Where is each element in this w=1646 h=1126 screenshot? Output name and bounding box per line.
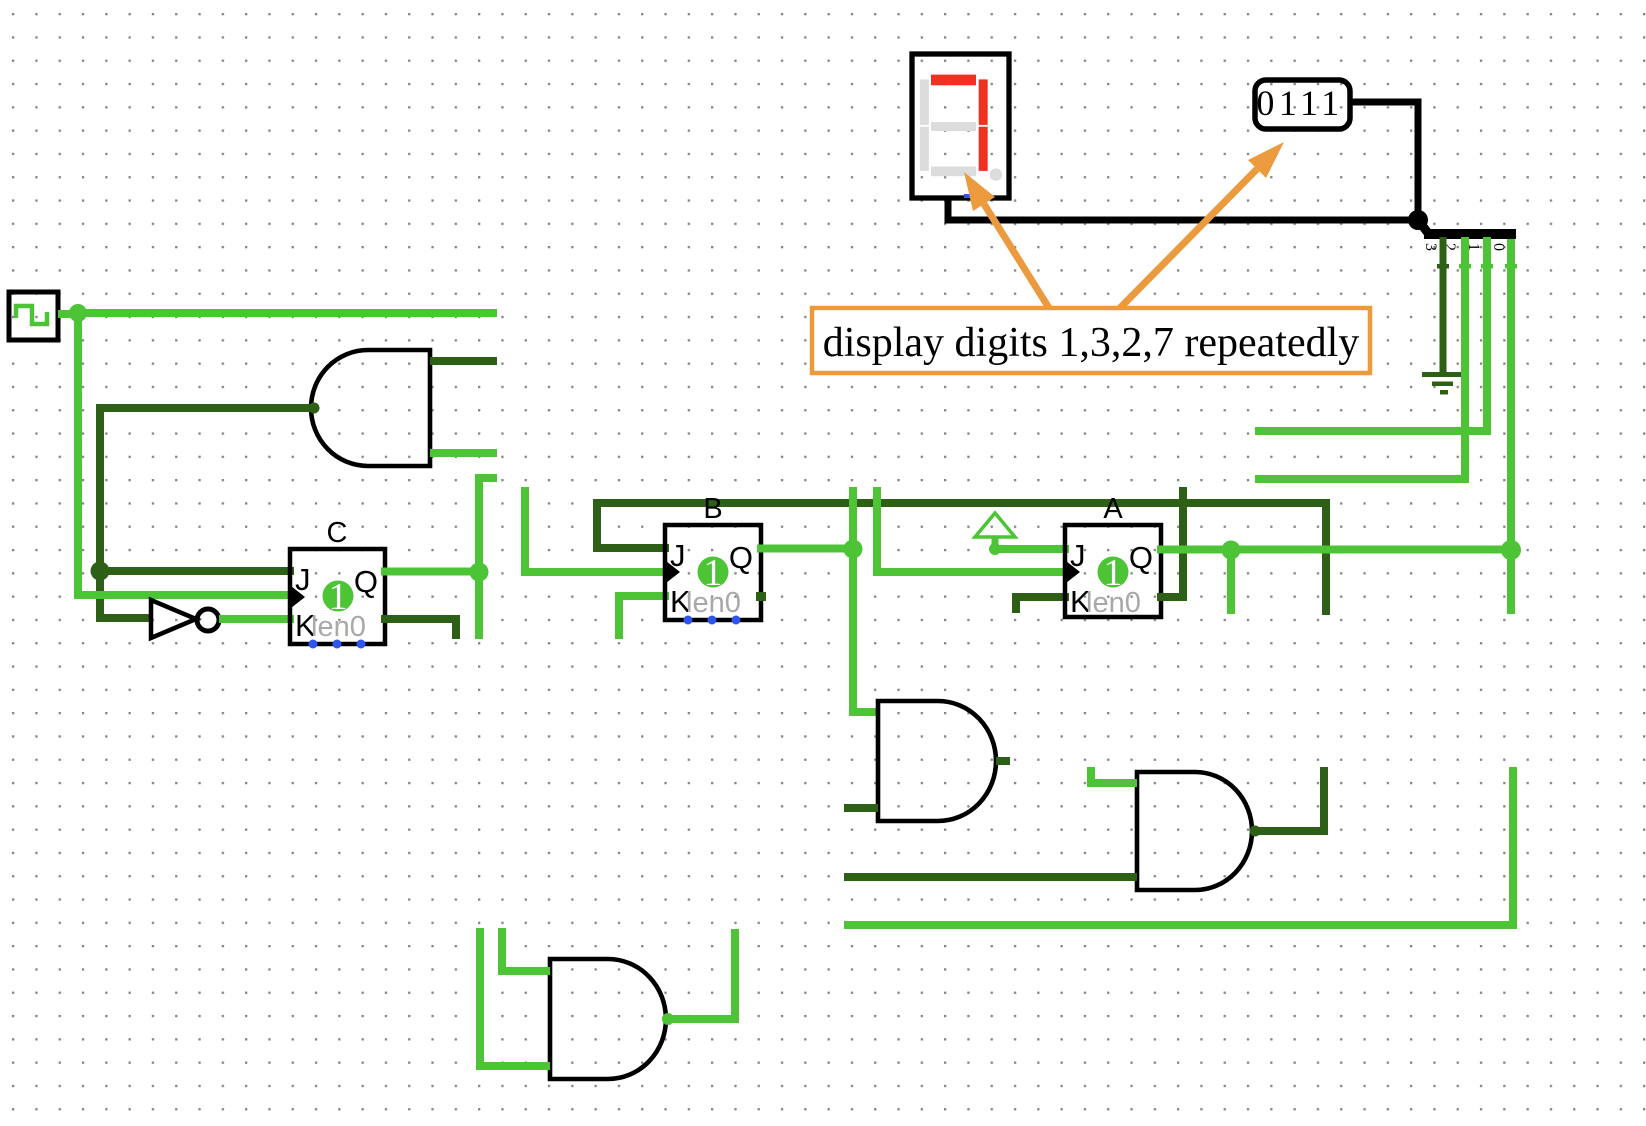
wire clock net of FF A	[877, 487, 1069, 572]
wire Qbar of FF C	[381, 619, 456, 639]
ground	[1422, 372, 1462, 395]
wire Q of FF A	[1157, 546, 1511, 554]
node Q_A junction 2	[1501, 540, 1521, 560]
svg-text:0111: 0111	[1256, 83, 1343, 123]
svg-text:1: 1	[704, 552, 723, 594]
svg-text:3: 3	[1422, 243, 1439, 251]
wire clock vertical to FF C	[78, 313, 294, 595]
wire clock of FF B	[525, 487, 669, 572]
wire J net of FF B (long dark)	[597, 503, 1326, 615]
svg-text:B: B	[703, 493, 722, 525]
svg-text:C: C	[327, 517, 348, 549]
svg-text:A: A	[1103, 493, 1123, 525]
wire U3 input2 long	[844, 873, 1137, 881]
wire long light bottom	[844, 767, 1513, 925]
svg-text:0: 0	[1490, 243, 1507, 251]
wire Q_C hook top	[479, 474, 497, 482]
wire K of FF B	[619, 596, 669, 639]
wire supply to J of FF A	[995, 545, 1069, 553]
node Q_C junction	[470, 563, 489, 582]
wire U1 output to J of FF C	[100, 408, 314, 571]
flip-flop C	[290, 517, 385, 649]
wire Q_B vertical down to and-gate U2	[853, 487, 878, 712]
svg-text:Q: Q	[354, 564, 378, 599]
annotation arrows	[964, 142, 1284, 308]
node clock junction	[69, 304, 87, 322]
wire bit1	[1255, 237, 1487, 431]
wire inverter output to K of FF C	[219, 615, 294, 623]
wire U4 input2	[480, 928, 550, 1066]
wire J junction to FF C	[100, 567, 294, 575]
wire bit3 to ground	[1440, 237, 1447, 374]
wire K of FF A	[1016, 597, 1069, 613]
wire U1 input stub bottom (light)	[430, 449, 497, 457]
wire U2 output stub	[996, 757, 1010, 765]
wire J junction down to inverter input	[100, 571, 150, 618]
inverter (NOT gate)	[151, 600, 219, 638]
and-gate U2	[878, 701, 996, 821]
supply symbol VDD	[975, 513, 1015, 555]
wire bit0 vertical	[1507, 237, 1515, 614]
wire clock output stub	[58, 310, 80, 318]
wire Q_A stub down	[1227, 550, 1235, 614]
svg-text:display digits 1,3,2,7 repeate: display digits 1,3,2,7 repeatedly	[823, 320, 1360, 366]
annotation box	[812, 308, 1370, 373]
probe 0111	[1255, 80, 1350, 129]
node J junction	[91, 562, 110, 581]
svg-text:1: 1	[329, 576, 348, 618]
flip-flop B	[665, 493, 761, 625]
and-gate U4	[550, 959, 666, 1079]
and-gate U3	[1137, 772, 1252, 890]
wire bit0 tick	[1505, 264, 1517, 269]
node black junction	[1408, 210, 1428, 230]
wire Q of FF C	[381, 568, 479, 576]
flip-flop A	[1065, 493, 1161, 619]
wire U1 input stub top (dark)	[430, 357, 497, 365]
wire U3 output	[1252, 767, 1324, 831]
and-gate U1 (mirrored)	[311, 350, 430, 466]
wire U3 input1 hook	[1091, 767, 1137, 783]
wire Q of FF B	[757, 545, 853, 553]
wire U2 input2 stub	[844, 804, 878, 812]
clock input CL	[9, 292, 58, 340]
wire clock horizontal top	[78, 309, 497, 317]
wire Qbar of FF A	[1157, 487, 1183, 597]
wire Q_C vertical	[475, 474, 483, 639]
svg-text:Q: Q	[1129, 540, 1153, 575]
wire display to splitter (black)	[948, 196, 1418, 220]
wire U4 input1	[502, 928, 550, 971]
splitter	[1418, 220, 1516, 251]
node Q_A junction 1	[1222, 541, 1241, 560]
node Q_B junction	[844, 540, 863, 559]
svg-text:1: 1	[1104, 552, 1123, 594]
svg-text:Q: Q	[729, 540, 753, 575]
wire Qbar stub of FF B	[756, 592, 766, 601]
wire U4 output	[667, 929, 735, 1019]
seven segment display	[912, 54, 1009, 198]
wire probe to splitter (black)	[1350, 102, 1418, 220]
wire bit2	[1255, 237, 1465, 479]
